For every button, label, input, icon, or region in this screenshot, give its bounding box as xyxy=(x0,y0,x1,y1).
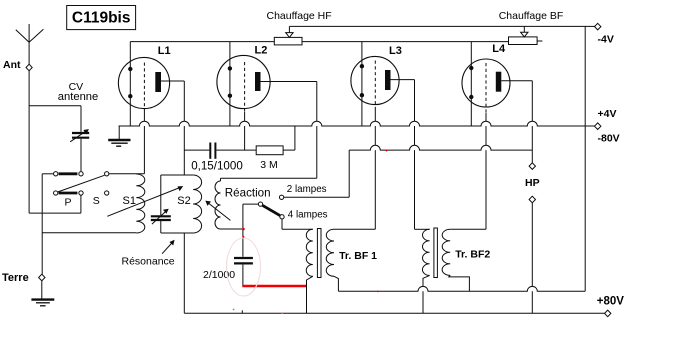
capacitor 0,15/1000 xyxy=(184,143,256,173)
svg-text:S1: S1 xyxy=(123,195,136,207)
wire L4 filament xyxy=(470,42,472,126)
svg-text:C119bis: C119bis xyxy=(72,10,131,27)
svg-text:2/1000: 2/1000 xyxy=(203,269,235,281)
svg-text:4 lampes: 4 lampes xyxy=(288,209,328,220)
wire S2 left branch with resonance capacitor xyxy=(160,175,162,233)
tube L2 xyxy=(217,44,270,108)
wire L2 grid down xyxy=(244,112,246,150)
wire CV to switch xyxy=(80,139,82,172)
anode L1 xyxy=(155,72,184,92)
filament dots L1 xyxy=(128,67,132,99)
wire CV branch xyxy=(29,106,81,132)
grid L3 dashed xyxy=(374,61,376,111)
filament dots L2 xyxy=(228,66,232,98)
resistor 3M xyxy=(256,146,295,171)
svg-text:3 M: 3 M xyxy=(260,159,278,171)
wire red link xyxy=(242,285,306,288)
svg-text:Chauffage BF: Chauffage BF xyxy=(499,10,564,22)
wire switch box bottom xyxy=(29,195,81,213)
svg-text:Réaction: Réaction xyxy=(225,187,271,200)
svg-text:-4V: -4V xyxy=(598,34,614,46)
filament dots L4 xyxy=(469,66,473,99)
inductor S1 xyxy=(123,174,145,233)
inductor Reaction xyxy=(205,181,270,229)
wire L3 grid down xyxy=(374,110,376,229)
wire S2 bottom xyxy=(161,232,193,234)
wire switch common xyxy=(243,204,258,257)
arrow tuning S1-S2 xyxy=(107,186,183,216)
wire antenna down xyxy=(28,71,30,213)
svg-text:Tr. BF 1: Tr. BF 1 xyxy=(339,250,377,262)
tube L3 xyxy=(351,45,402,105)
grid L2 dashed xyxy=(244,62,246,112)
svg-text:HP: HP xyxy=(525,177,540,189)
wire L4 anode down to HP xyxy=(531,81,533,163)
transformer Tr. BF2 xyxy=(415,228,491,313)
svg-text:2 lampes: 2 lampes xyxy=(287,184,327,195)
node HP terminals xyxy=(525,163,540,203)
title box C119bis xyxy=(67,6,136,30)
svg-text:+80V: +80V xyxy=(597,296,625,308)
junction tick xyxy=(241,310,243,313)
wire 3M to bus xyxy=(294,126,296,150)
node -4V terminal xyxy=(595,23,614,45)
svg-text:Ant: Ant xyxy=(3,59,21,71)
bus return A xyxy=(338,286,585,291)
capacitor Resonance variable xyxy=(151,209,171,224)
wire L1 grid to S1 xyxy=(143,112,145,174)
wire S2 top xyxy=(161,174,193,176)
inductor S2 xyxy=(177,175,201,233)
bus +80V xyxy=(184,312,604,314)
svg-text:L1: L1 xyxy=(158,45,171,57)
svg-text:+4V: +4V xyxy=(598,108,617,120)
grid L4 dashed xyxy=(485,63,487,113)
wire L1 anode down xyxy=(183,81,185,175)
wire top heater xyxy=(130,41,508,43)
node +4V terminal xyxy=(595,108,620,144)
transformer Tr. BF 1 xyxy=(306,229,377,314)
capacitor CV antenne xyxy=(58,81,98,142)
anode L2 xyxy=(255,72,317,91)
tube L1 xyxy=(118,45,170,109)
node Terre terminal xyxy=(2,272,45,284)
capacitor 2/1000 xyxy=(203,258,253,286)
tube L4 xyxy=(462,43,510,107)
wire 2 lampes xyxy=(284,150,349,197)
svg-text:L2: L2 xyxy=(255,44,268,56)
wire L2 filament xyxy=(229,42,231,126)
bus masks xyxy=(139,121,537,291)
wire S2 bottom to +80V bus xyxy=(183,233,185,313)
svg-text:S2: S2 xyxy=(177,195,190,207)
bus +4V filament xyxy=(119,121,595,126)
ground near L1 xyxy=(108,126,130,146)
svg-text:L3: L3 xyxy=(389,45,402,57)
wire Terre vertical xyxy=(41,174,43,274)
svg-text:-80V: -80V xyxy=(598,132,620,144)
wire reaction bottom xyxy=(221,228,243,230)
bus grid right xyxy=(349,145,532,150)
switch lamp selector xyxy=(258,184,327,220)
anode L3 xyxy=(385,70,415,90)
node +80V terminal xyxy=(597,296,625,317)
wire -4V bus xyxy=(289,25,594,27)
svg-text:L4: L4 xyxy=(492,43,506,55)
svg-text:0,15/1000: 0,15/1000 xyxy=(191,160,243,173)
anode L4 xyxy=(496,72,533,92)
switch P/S contacts xyxy=(54,172,109,209)
svg-text:Chauffage HF: Chauffage HF xyxy=(267,10,332,22)
label Resonance with arrow xyxy=(122,240,175,268)
ground Terre xyxy=(31,281,54,306)
wire switch to S1 top xyxy=(109,173,144,175)
potentiometer Chauffage HF xyxy=(267,10,332,45)
svg-text:S: S xyxy=(93,195,100,207)
node Ant terminal xyxy=(3,59,32,71)
filament dots L3 xyxy=(360,64,364,97)
wire L4 grid down xyxy=(485,113,487,229)
svg-text:antenne: antenne xyxy=(58,91,98,103)
wire switch left xyxy=(42,173,53,175)
potentiometer Chauffage BF xyxy=(499,10,564,45)
wire S1 bottom xyxy=(42,232,136,234)
wire L3 filament xyxy=(361,42,363,126)
wire L1 filament xyxy=(129,42,131,126)
red artifacts xyxy=(227,150,388,314)
wire L2 anode down xyxy=(316,82,318,179)
svg-text:Terre: Terre xyxy=(2,272,29,284)
wire right rail xyxy=(584,26,586,291)
wire 4 lampes xyxy=(282,219,313,229)
svg-text:Résonance: Résonance xyxy=(122,256,175,268)
svg-text:Tr. BF2: Tr. BF2 xyxy=(455,249,490,261)
grid L1 dashed xyxy=(143,63,145,113)
wire L3 anode down xyxy=(414,80,416,230)
svg-text:P: P xyxy=(65,197,72,209)
antenna symbol xyxy=(16,24,44,64)
wire reaction top xyxy=(221,178,317,181)
wire HP down xyxy=(531,203,533,313)
